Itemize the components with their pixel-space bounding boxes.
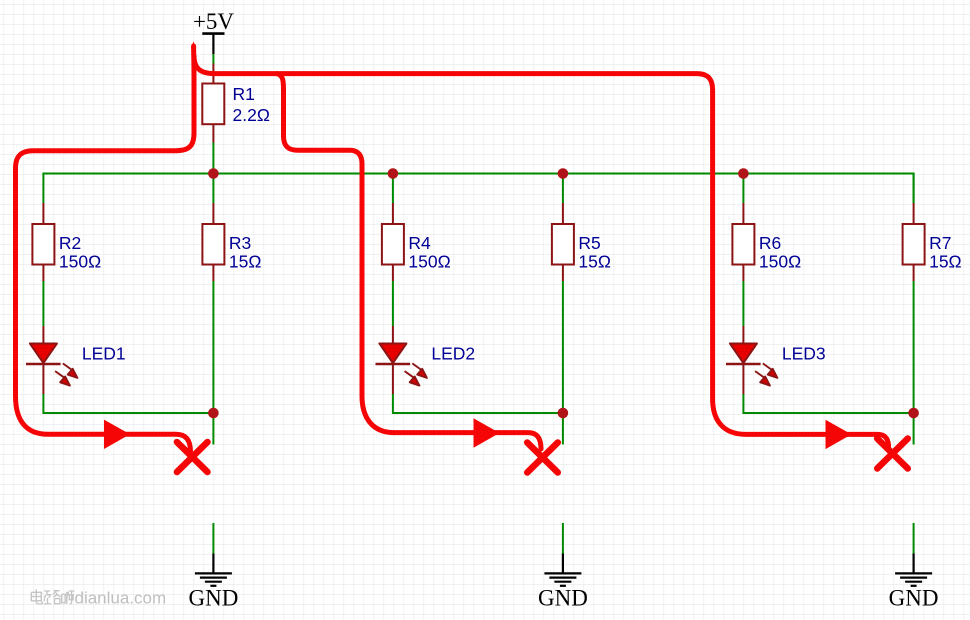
junction node bus branch 3: [738, 168, 749, 179]
svg-text:150Ω: 150Ω: [59, 252, 101, 272]
resistor R2 pin 1: [42, 203, 44, 225]
wire power stem: [212, 34, 214, 55]
junction node bottom 1: [208, 408, 219, 419]
svg-text:LED3: LED3: [782, 344, 826, 364]
annotation cut X 3: [877, 439, 908, 469]
wire: [913, 523, 915, 554]
resistor R7 pin 2: [913, 265, 915, 282]
resistor R1: [202, 84, 224, 125]
LED LED1: [26, 344, 77, 386]
power +5V bar symbol: [202, 32, 224, 35]
annotation arrow 2: [474, 418, 500, 447]
svg-text:R7: R7: [929, 233, 951, 253]
annotation current path 2 (red): [277, 74, 541, 449]
junction node bus branch 2: [388, 168, 399, 179]
annotation cut X 2: [527, 443, 558, 473]
resistor R5 pin 1: [562, 203, 564, 225]
LED LED3 cathode pin: [742, 365, 744, 394]
resistor R3: [202, 224, 224, 265]
ground GND2: [544, 554, 581, 586]
annotation arrow 1: [104, 420, 130, 449]
resistor R2 pin 2: [42, 265, 44, 282]
wire: [562, 281, 564, 445]
svg-text:150Ω: 150Ω: [759, 252, 801, 272]
LED LED2: [376, 344, 427, 386]
wire: [562, 523, 564, 554]
resistor R3 pin 2: [212, 265, 214, 282]
wire: [212, 281, 214, 445]
wire LED3 cathode to node: [743, 394, 913, 413]
svg-text:15Ω: 15Ω: [929, 252, 962, 272]
watermark dianlua.com: [31, 589, 74, 604]
wire: [562, 174, 564, 204]
annotation current path 3 (red, top run): [194, 56, 889, 449]
svg-text:R4: R4: [408, 233, 431, 253]
svg-text:LED2: LED2: [431, 344, 475, 364]
wire: [212, 54, 214, 63]
LED LED2 anode pin: [392, 326, 394, 344]
junction node bottom 3: [908, 408, 919, 419]
svg-text:+5V: +5V: [193, 9, 234, 34]
junction node bus R5 branch: [558, 168, 569, 179]
ground GND1: [195, 554, 232, 586]
wire: [42, 281, 44, 326]
svg-text:R5: R5: [578, 233, 600, 253]
LED LED1 cathode pin: [42, 365, 44, 394]
resistor R4 pin 1: [392, 203, 394, 225]
annotation pen tip: [191, 42, 196, 49]
LED LED3: [726, 344, 777, 386]
svg-text:2.2Ω: 2.2Ω: [233, 105, 270, 125]
svg-text:R2: R2: [59, 233, 81, 253]
svg-text:15Ω: 15Ω: [578, 252, 611, 272]
resistor R7: [903, 224, 925, 265]
resistor R6 pin 1: [742, 203, 744, 225]
wire LED1 cathode to node: [43, 394, 213, 413]
wire: [742, 174, 744, 204]
LED LED2 cathode pin: [392, 365, 394, 394]
svg-text:dianlua.com: dianlua.com: [75, 589, 167, 608]
annotation cut X 1: [177, 442, 208, 472]
svg-text:R6: R6: [759, 233, 781, 253]
wire: [392, 281, 394, 326]
resistor R3 pin 1: [212, 203, 214, 225]
resistor R6: [732, 224, 754, 265]
resistor R4: [382, 224, 404, 265]
svg-text:GND: GND: [188, 586, 238, 611]
svg-text:R3: R3: [229, 233, 251, 253]
svg-text:15Ω: 15Ω: [229, 252, 262, 272]
junction node bus branch 1: [208, 168, 219, 179]
wire: [913, 174, 915, 204]
resistor R5: [552, 224, 574, 265]
resistor R4 pin 2: [392, 265, 394, 282]
wire LED2 cathode to node: [393, 394, 563, 413]
svg-text:GND: GND: [538, 586, 588, 611]
junction node bottom 2: [558, 408, 569, 419]
wire: [913, 281, 915, 445]
LED LED3 anode pin: [742, 326, 744, 344]
svg-text:150Ω: 150Ω: [408, 252, 450, 272]
annotation arrow 3: [826, 420, 852, 449]
wire +5V distribution bus: [43, 174, 913, 204]
resistor R1 pin 2: [212, 124, 214, 142]
resistor R5 pin 2: [562, 265, 564, 282]
resistor R7 pin 1: [913, 203, 915, 225]
svg-text:R1: R1: [233, 84, 255, 104]
resistor R6 pin 2: [742, 265, 744, 282]
LED LED1 anode pin: [42, 326, 44, 344]
wire: [212, 523, 214, 554]
ground GND3: [895, 554, 932, 586]
wire: [212, 143, 214, 174]
resistor R1 pin 1: [212, 64, 214, 85]
wire: [742, 281, 744, 326]
wire: [392, 174, 394, 204]
wire: [212, 174, 214, 204]
resistor R2: [32, 224, 54, 265]
annotation current path 1 (red): [16, 46, 195, 452]
svg-text:LED1: LED1: [82, 344, 126, 364]
svg-text:GND: GND: [889, 586, 939, 611]
